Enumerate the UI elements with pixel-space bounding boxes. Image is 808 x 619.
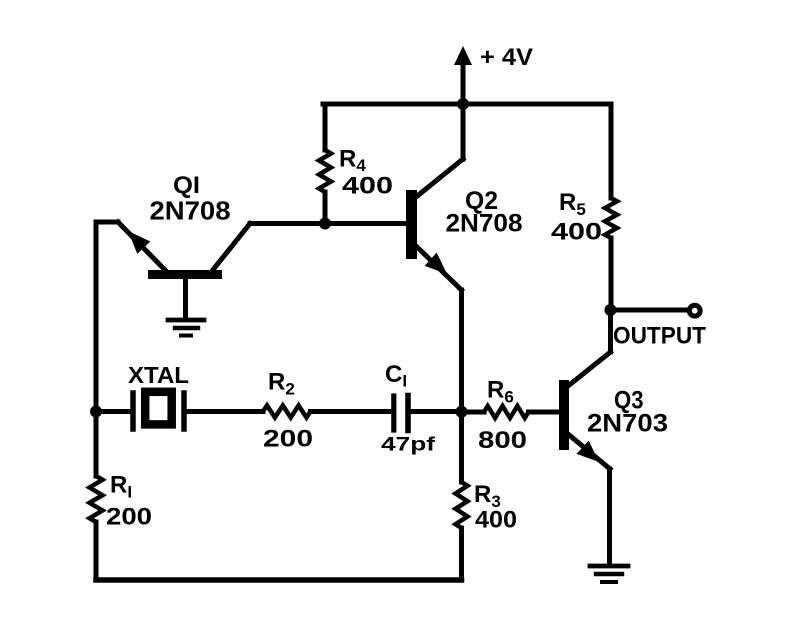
transistor Q2 xyxy=(406,159,463,290)
resistor R3 xyxy=(456,482,468,528)
wire C1 to node C xyxy=(411,409,462,414)
wire node A to crystal xyxy=(96,409,130,414)
resistor R1 xyxy=(90,476,103,522)
resistor R6 xyxy=(484,406,529,418)
junction node B (R4 / Q1 collector / Q2 base) xyxy=(319,218,331,230)
junction node C (C1 / R6 / R3 / Q2 emitter) xyxy=(456,406,468,418)
wire Q2 collector riser xyxy=(461,104,466,159)
wire Q1 emitter to left bus xyxy=(96,220,118,225)
junction supply node (rail / Q2 collector) xyxy=(457,98,469,110)
junction output node xyxy=(605,304,617,316)
wire left bus to R1 xyxy=(94,412,99,477)
wire R4 lower lead xyxy=(323,192,328,224)
wire left bus vertical xyxy=(94,222,99,412)
wire crystal to R2 xyxy=(187,409,263,414)
ground (Q1 base) xyxy=(168,320,204,336)
wire R5 upper lead xyxy=(609,104,614,198)
wire R5 lower lead xyxy=(609,238,614,310)
wire node C to R6 xyxy=(462,410,485,415)
resistor R5 xyxy=(605,198,617,238)
output terminal circle xyxy=(689,305,700,316)
svg-text:200: 200 xyxy=(106,504,152,531)
svg-text:400: 400 xyxy=(342,173,393,200)
wire Q3 collector riser xyxy=(608,310,613,352)
resistor R4 xyxy=(319,150,331,192)
wire Q1 base lead xyxy=(183,279,188,318)
junction node A (left bus / crystal) xyxy=(90,406,102,418)
capacitor C1 xyxy=(394,396,408,431)
svg-text:+ 4V: + 4V xyxy=(480,44,533,71)
+4V supply arrow xyxy=(454,46,472,104)
wire R3 lower lead xyxy=(459,528,464,580)
svg-text:400: 400 xyxy=(551,219,602,246)
wire bottom return rail xyxy=(96,577,462,583)
svg-text:2N703: 2N703 xyxy=(587,410,668,438)
wire R6 to Q3 base xyxy=(529,410,560,415)
svg-text:XTAL: XTAL xyxy=(128,362,189,388)
wire Q2 emitter drop to node C xyxy=(459,290,464,412)
svg-text:47pf: 47pf xyxy=(381,434,436,456)
crystal XTAL xyxy=(133,392,184,429)
svg-text:400: 400 xyxy=(475,507,517,534)
transistor Q1 xyxy=(118,222,250,279)
wire R4 upper lead xyxy=(323,104,328,150)
transistor Q3 xyxy=(559,352,611,469)
svg-text:200: 200 xyxy=(263,426,313,453)
svg-text:2N708: 2N708 xyxy=(446,210,523,238)
svg-text:OUTPUT: OUTPUT xyxy=(613,323,706,350)
wire R1 lower lead xyxy=(94,522,99,580)
svg-text:2N708: 2N708 xyxy=(150,196,231,226)
wire Q1 collector to Q2 base (node B) xyxy=(250,221,406,226)
ground (Q3 emitter) xyxy=(590,566,628,582)
svg-text:800: 800 xyxy=(478,427,527,454)
resistor R2 xyxy=(263,406,311,418)
wire top supply rail xyxy=(323,102,611,107)
wire Q3 emitter drop xyxy=(607,469,612,564)
wire output stub xyxy=(611,308,689,313)
wire R2 to C1 xyxy=(311,409,392,414)
wire R3 upper lead xyxy=(459,412,464,482)
